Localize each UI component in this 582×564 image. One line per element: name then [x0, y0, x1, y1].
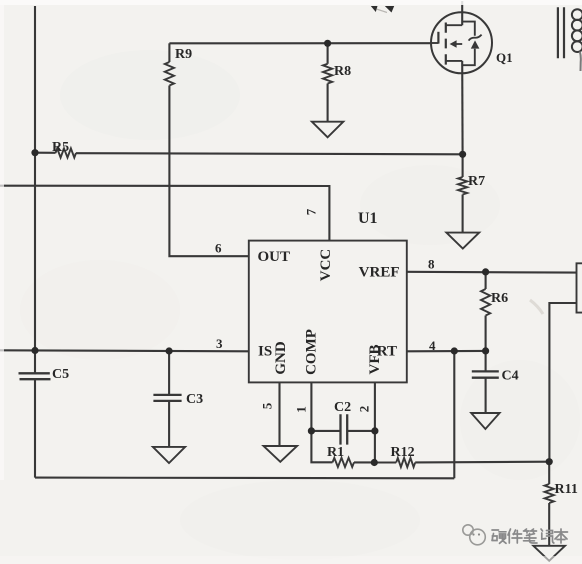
ground (R7) [446, 233, 479, 249]
svg-text:R7: R7 [468, 174, 485, 189]
svg-text:C5: C5 [52, 367, 69, 382]
svg-text:8: 8 [428, 257, 435, 272]
resistor R6 [481, 272, 508, 351]
transformer winding [572, 9, 582, 71]
wire: COMP pin 1 lead down [311, 382, 332, 462]
junction node 11 [371, 459, 378, 466]
resistor R9 [165, 43, 192, 85]
ground (C3) [153, 447, 185, 463]
pin number 2 [357, 406, 372, 413]
pin VREF label [359, 265, 400, 281]
svg-text:R12: R12 [391, 445, 415, 460]
watermark logo icon [463, 525, 486, 545]
junction node 10 [371, 427, 378, 434]
svg-text:3: 3 [216, 336, 223, 351]
pin OUT label [258, 249, 291, 265]
wire: left vertical below C5 [34, 379, 36, 477]
pin number 3 [216, 336, 223, 351]
resistor R12 [375, 445, 415, 467]
resistor R1 [327, 445, 354, 467]
wire: R5 to Q1 source node [76, 153, 463, 154]
wire: left vertical bus top segment [34, 6, 36, 373]
resistor R5 [52, 140, 76, 158]
svg-text:GND: GND [273, 341, 289, 375]
ground (C4) [471, 413, 499, 429]
pin number 6 [215, 241, 222, 256]
wire: R1 to VFB node [354, 461, 375, 463]
transformer core [558, 7, 564, 58]
svg-text:IS: IS [258, 344, 272, 360]
wire: bottom horizontal rail [35, 477, 454, 480]
svg-text:R9: R9 [175, 47, 192, 62]
pin RT label [377, 344, 397, 360]
svg-text:U1: U1 [358, 210, 378, 227]
ground (pin 5) [264, 446, 298, 462]
svg-text:7: 7 [304, 208, 319, 215]
junction node 1 [31, 149, 38, 156]
junction node 12 [546, 458, 553, 465]
net label N (clipped at top edge) [371, 6, 394, 13]
svg-text:R8: R8 [334, 64, 351, 79]
wire: VFB pin 2 lead down [374, 382, 376, 462]
wire: R9 down to pin 6 [169, 86, 248, 257]
svg-text:Q1: Q1 [496, 50, 513, 65]
resistor R11 [545, 462, 578, 546]
svg-text:R11: R11 [555, 482, 578, 497]
junction node 6 [482, 268, 489, 275]
connector box at right edge [577, 263, 582, 312]
junction node 3 [166, 347, 173, 354]
pin VCC label [318, 249, 334, 282]
wire: right net down from connector [549, 303, 576, 462]
junction node 8 [482, 347, 489, 354]
wire: vertical from bottom rail up to pin 4 net [453, 351, 455, 478]
svg-text:RT: RT [377, 344, 397, 360]
svg-text:2: 2 [357, 406, 372, 413]
wire: GND pin 5 lead [278, 382, 280, 446]
capacitor C2 [311, 400, 375, 445]
svg-text:R1: R1 [327, 445, 344, 460]
svg-text:C3: C3 [186, 392, 203, 407]
svg-text:VCC: VCC [318, 249, 334, 282]
pin IS label [258, 344, 272, 360]
svg-text:OUT: OUT [258, 249, 291, 265]
resistor R8 [323, 43, 351, 121]
ground (R8) [312, 122, 343, 138]
junction node 9 [308, 427, 315, 434]
wire: VCC rail from left edge to pin 7 [0, 186, 329, 241]
capacitor C4 [472, 351, 519, 413]
wire: R12 to R11 node [415, 461, 549, 464]
pin COMP label [304, 329, 320, 375]
op-amp U1 (PWM controller box) [249, 210, 407, 382]
watermark text 硬件笔记本 [492, 529, 568, 543]
wire: IS rail (pin 3) [0, 350, 249, 351]
junction node 7 [451, 347, 458, 354]
svg-text:C4: C4 [502, 369, 519, 384]
svg-text:5: 5 [260, 402, 275, 409]
svg-text:C2: C2 [334, 400, 351, 415]
capacitor C3 [153, 351, 203, 447]
pin number 8 [428, 257, 435, 272]
svg-text:1: 1 [294, 406, 309, 413]
resistor R7 [458, 154, 485, 232]
svg-text:COMP: COMP [304, 329, 320, 375]
capacitor C5 [19, 367, 70, 382]
junction node 4 [324, 40, 331, 47]
pin number 7 [304, 208, 319, 215]
wire: R5 node horizontal (left) [35, 152, 56, 154]
junction node 2 [31, 347, 38, 354]
svg-text:R5: R5 [52, 140, 69, 155]
pin VFB label [367, 345, 383, 375]
junction node 5 [459, 151, 466, 158]
pin number 5 [260, 402, 275, 409]
svg-text:R6: R6 [491, 291, 508, 306]
svg-text:6: 6 [215, 241, 222, 256]
pin GND label [273, 341, 289, 375]
wire: RT rail pin 4 [407, 350, 486, 352]
pin number 1 [294, 406, 309, 413]
wire: gate rail from R9 to Q1 gate [169, 42, 431, 44]
pin number 4 [429, 338, 436, 353]
wire: VREF rail pin 8 [407, 271, 577, 274]
scan smudge [530, 300, 543, 314]
transistor Q1 (N-MOSFET with body zener) [431, 1, 513, 154]
ground (R11) [533, 546, 565, 561]
svg-text:VREF: VREF [359, 265, 400, 281]
